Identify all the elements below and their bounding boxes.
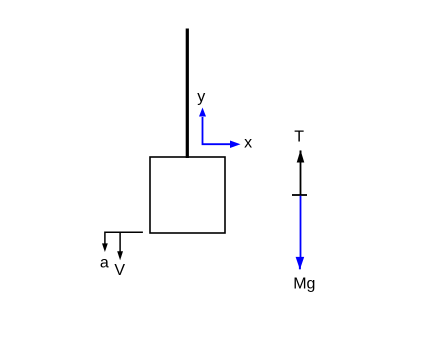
svg-text:a: a — [100, 254, 109, 271]
svg-text:T: T — [294, 128, 304, 145]
svg-text:V: V — [114, 262, 125, 279]
svg-text:y: y — [197, 88, 205, 105]
svg-text:Mg: Mg — [293, 276, 315, 293]
svg-text:x: x — [244, 135, 252, 152]
